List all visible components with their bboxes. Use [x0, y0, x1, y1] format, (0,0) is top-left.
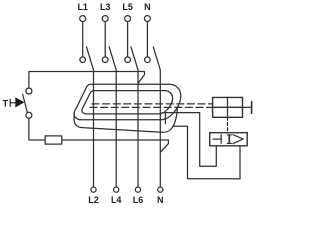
wire L3 down — [104, 22, 106, 57]
svg-text:L1: L1 — [77, 2, 88, 12]
relay plunger line — [213, 106, 252, 108]
svg-text:L2: L2 — [88, 195, 99, 205]
wire resistor to N — [62, 140, 169, 152]
blade pole3 — [131, 47, 138, 70]
blade pole1 — [87, 47, 94, 70]
contact pole4 — [145, 57, 151, 63]
relay K1 box — [213, 97, 243, 117]
toroid core outer — [74, 84, 181, 120]
terminal N bottom — [158, 187, 163, 192]
conductor pole3 — [137, 70, 139, 187]
terminal L1 — [80, 16, 86, 22]
conductor pole2 — [115, 70, 117, 187]
toroid wall bottom — [74, 109, 177, 133]
wire L1 down — [82, 22, 84, 57]
detector box I> — [210, 133, 248, 146]
resistor R test — [45, 136, 62, 144]
dashed sensing line lower — [90, 106, 213, 108]
test button contact top — [26, 88, 32, 94]
terminal N top — [144, 16, 150, 22]
test button actuator — [10, 97, 24, 107]
terminal L3 — [102, 16, 108, 22]
detector symbol greater — [233, 135, 243, 144]
svg-text:L4: L4 — [111, 195, 122, 205]
svg-text:N: N — [157, 195, 164, 205]
test button blade — [23, 94, 28, 112]
terminal L5 — [125, 16, 131, 22]
toroid core inner — [82, 91, 173, 114]
linkage dashed — [227, 117, 229, 132]
wire test bottom — [29, 118, 45, 140]
relay plunger wall — [251, 102, 253, 114]
conductor pole4 N — [159, 70, 161, 187]
svg-text:L3: L3 — [100, 2, 111, 12]
svg-text:N: N — [144, 2, 151, 12]
contact pole3 — [125, 57, 131, 63]
wire test top — [29, 72, 145, 89]
test button contact bottom — [26, 112, 32, 118]
conductor pole1 — [93, 70, 95, 187]
terminal L4 — [114, 187, 119, 192]
svg-text:T: T — [3, 99, 9, 109]
relay internal line — [213, 106, 243, 108]
contact pole1 — [80, 57, 86, 63]
detector symbol dash — [213, 138, 221, 140]
secondary wire A — [162, 113, 216, 167]
wire L5 down — [127, 22, 129, 57]
terminal L6 — [135, 187, 140, 192]
terminal L2 — [91, 187, 96, 192]
contact pole2 — [102, 57, 108, 63]
svg-text:L6: L6 — [133, 195, 144, 205]
blade pole2 — [109, 47, 116, 70]
detector symbol I — [227, 135, 231, 144]
relay divider — [227, 97, 229, 117]
dashed sensing line upper — [92, 103, 213, 105]
detector symbol bar — [220, 135, 222, 143]
secondary wire B — [173, 126, 240, 179]
svg-text:L5: L5 — [122, 2, 133, 12]
blade pole4 — [153, 47, 160, 70]
wire N down — [146, 22, 148, 57]
secondary winding stub — [164, 113, 166, 124]
